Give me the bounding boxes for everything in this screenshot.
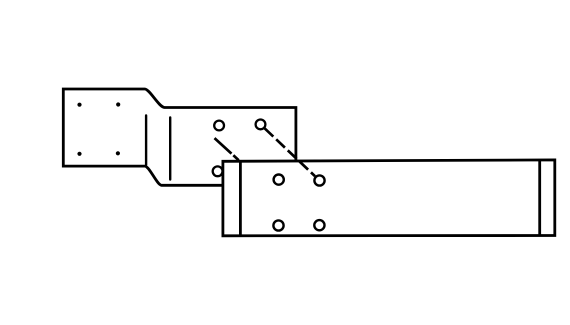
bar hole F <box>314 220 324 230</box>
small hole dot top-left <box>77 103 81 107</box>
bend line 1 <box>145 116 147 166</box>
bar hole E <box>273 220 283 230</box>
bend line 2 <box>169 118 171 180</box>
alignment dashed line 2 (hole B to hole D) <box>265 128 315 176</box>
bracket hole A <box>214 121 224 131</box>
alignment dashed line 1 (to bar corner) <box>215 138 239 160</box>
small hole dot top-right <box>116 102 120 106</box>
bracket hole B <box>256 120 266 130</box>
bar outline (long plate, lower right, drawn over bracket) <box>223 160 555 236</box>
bracket hole G (clipped by bar) <box>213 166 223 176</box>
bar inner end line left <box>239 161 242 236</box>
small hole dot bottom-right <box>116 151 120 155</box>
bracket outline (stepped sheet-metal part, upper left) <box>63 89 296 185</box>
bar hole D <box>314 175 324 185</box>
small hole dot bottom-left <box>77 152 81 156</box>
bar hole C <box>274 175 284 185</box>
bar inner end line right <box>538 160 541 236</box>
